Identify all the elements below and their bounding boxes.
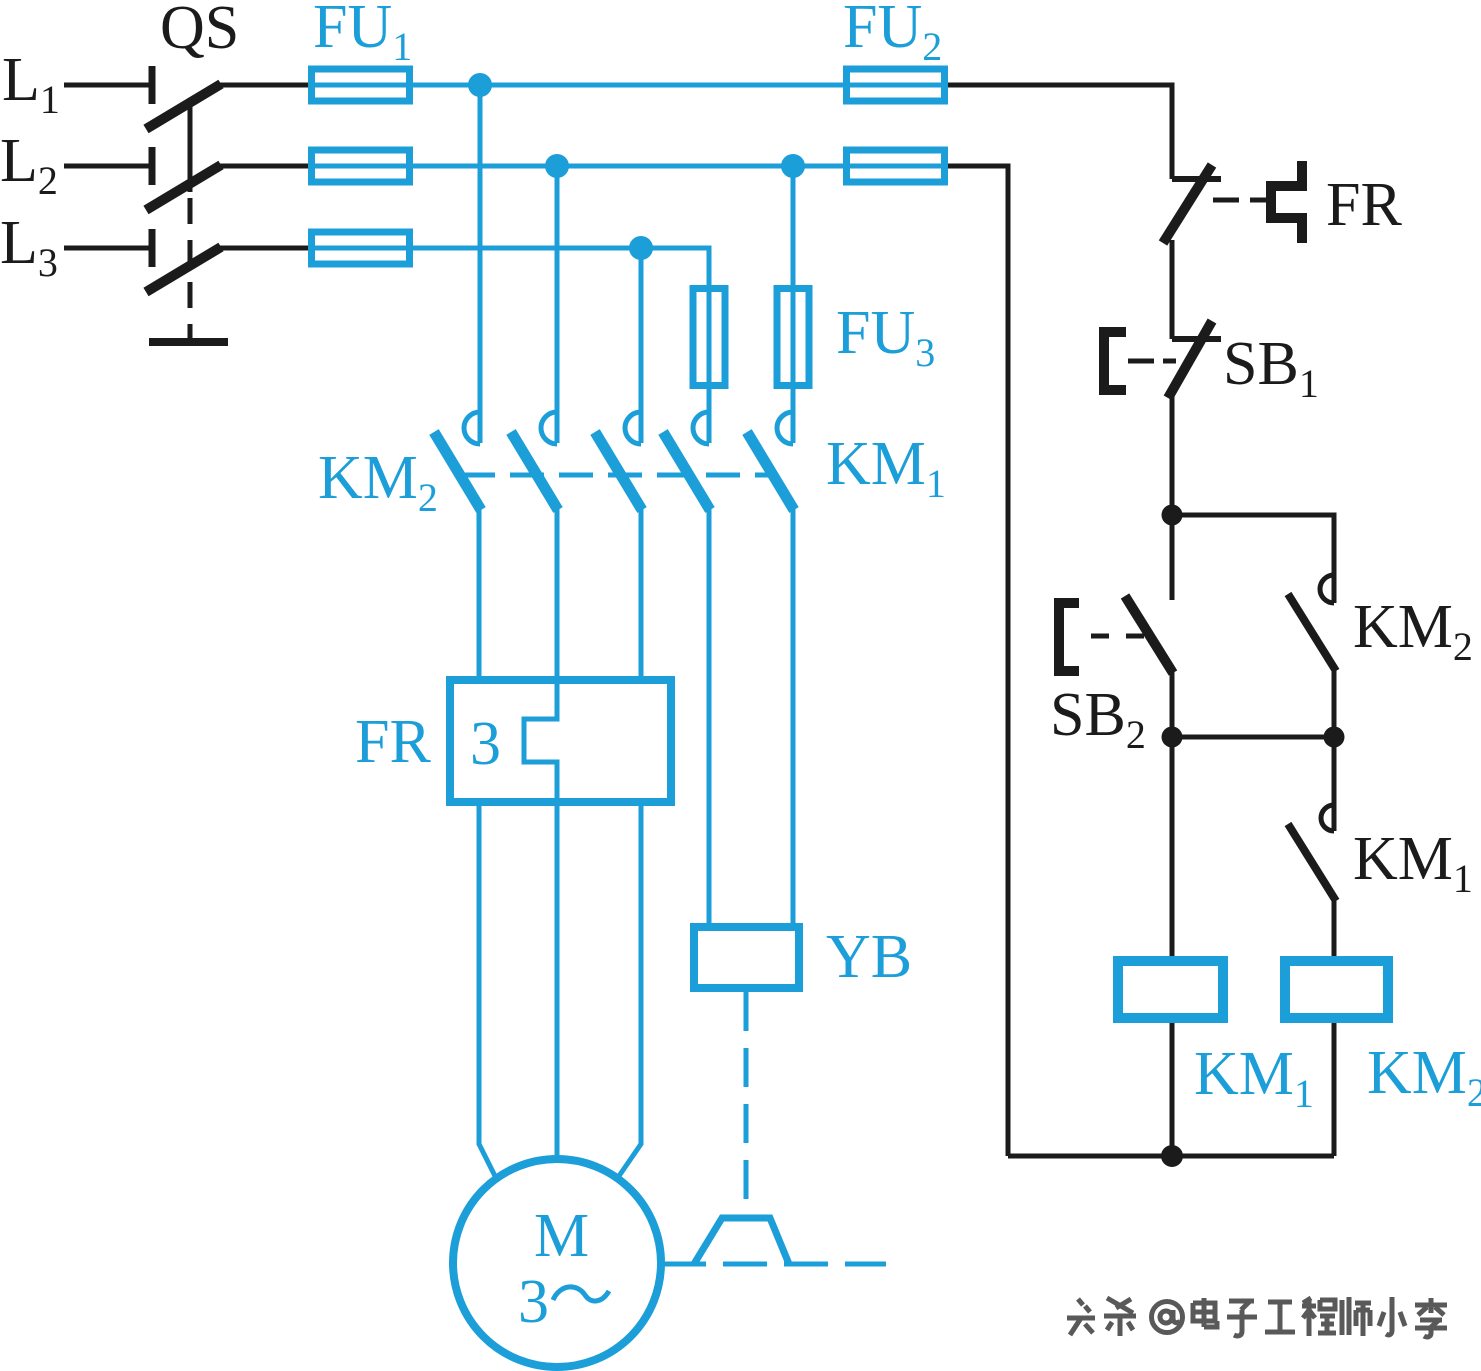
wire QS to FU1 phase2 (219, 164, 311, 169)
svg-text:QS: QS (160, 0, 239, 62)
wire contact1 to FR box (477, 505, 482, 680)
node A (1162, 505, 1183, 526)
FR contact actuator dashes (1213, 198, 1271, 203)
fuse FU3 right (777, 285, 809, 389)
contactor KM2 main contact 3 (595, 412, 642, 510)
label KM2 main (318, 444, 438, 520)
wire coil KM2 to bottom bus (1332, 1023, 1337, 1156)
label M (534, 1202, 589, 1270)
wire KM1 contact2 to YB (791, 505, 796, 927)
main contacts linkage dashed (461, 473, 773, 478)
label SB1 (1223, 330, 1319, 406)
wire KM1 aux to coil KM2 (1332, 897, 1337, 960)
wire to fuse FU3 right (791, 166, 796, 290)
switch QS pole 3 (146, 229, 221, 292)
label FR box (355, 708, 431, 776)
wire L3 to QS (64, 246, 152, 251)
fuse FU3 left (693, 285, 725, 389)
label coil KM1 (1194, 1040, 1314, 1116)
fuse FU1 phase2 (308, 150, 413, 182)
wire FU3 left to contact (707, 389, 712, 443)
fuse FU1 phase3 (308, 232, 413, 264)
relay FR NC contact (1163, 165, 1221, 243)
wire FR to motor U (479, 806, 495, 1176)
label YB (826, 923, 912, 991)
label FU2 (843, 0, 942, 69)
label KM1 main (826, 430, 946, 506)
svg-text:KM2: KM2 (1367, 1039, 1481, 1115)
wire L2 to QS (64, 164, 152, 169)
wire phase V drop (555, 166, 560, 443)
svg-text:YB: YB (826, 923, 912, 991)
wire contact3 to FR box (639, 505, 644, 680)
coil KM2 (1285, 961, 1388, 1018)
wire FR to motor V (555, 806, 560, 1161)
brake coil YB (694, 927, 799, 988)
svg-text:FR: FR (1326, 171, 1402, 239)
svg-text:M: M (534, 1202, 589, 1270)
QS handle bar (149, 338, 228, 346)
fuse FU1 phase1 (308, 69, 413, 101)
button SB2 NO (1059, 515, 1173, 673)
fuse FU2 upper (843, 69, 948, 101)
label L3 (0, 209, 58, 285)
wire FU3 right to contact (791, 389, 796, 443)
label KM1 aux (1353, 825, 1473, 901)
coil KM1 (1118, 961, 1223, 1018)
motor M circle (453, 1159, 661, 1367)
node C (1324, 727, 1345, 748)
label FR contact (1326, 171, 1402, 239)
node L1 junction (468, 73, 492, 97)
label FU3 (836, 299, 935, 375)
wire control phase top (948, 85, 1172, 179)
label FU1 (313, 0, 412, 69)
label coil KM2 (1367, 1039, 1481, 1115)
wire QS to FU1 phase1 (219, 83, 311, 88)
brake dashed baseline (662, 1262, 886, 1267)
contactor KM1 aux contact (1288, 805, 1336, 901)
svg-text:3: 3 (470, 710, 501, 778)
contactor KM1 main contact 1 (663, 412, 710, 510)
brake shoe trapezoid (694, 1218, 789, 1264)
YB actuator dashed (744, 992, 749, 1218)
wire KM1 contact1 to YB (707, 505, 712, 927)
wire phase W drop (639, 248, 644, 443)
contactor KM2 aux contact (1288, 575, 1336, 671)
svg-text:3: 3 (518, 1268, 549, 1336)
wire SB1 to node A (1170, 395, 1175, 515)
wire FR to SB1 (1170, 240, 1175, 339)
svg-text:FR: FR (355, 708, 431, 776)
label L2 (0, 127, 58, 203)
wire QS to FU1 phase3 (219, 246, 311, 251)
node L2 junction a (545, 154, 569, 178)
wire node B to coil KM1 (1170, 737, 1175, 960)
wire control neutral rail (948, 166, 1008, 1156)
button SB1 NC (1104, 321, 1221, 398)
switch QS pole 2 (146, 147, 221, 210)
FR heater symbol (1271, 161, 1302, 243)
wire FR to motor W (619, 806, 641, 1176)
node L2 junction b (781, 154, 805, 178)
label QS (160, 0, 239, 62)
label 3-phase (518, 1268, 609, 1336)
wire L3 bus (410, 248, 709, 290)
contactor KM2 main contact 2 (511, 412, 558, 510)
wire SB2 to node B (1170, 669, 1175, 737)
label L1 (2, 46, 60, 122)
switch QS pole 1 (146, 66, 221, 129)
contactor KM2 main contact 1 (434, 412, 481, 510)
QS linkage bar (188, 103, 193, 338)
wire KM2 aux to node C (1332, 667, 1337, 737)
wire phase U drop (478, 85, 483, 443)
FR heater element jog (524, 676, 557, 806)
watermark credit text (1067, 1297, 1447, 1337)
wire contact2 to FR box (555, 505, 560, 676)
node D (1161, 1145, 1183, 1167)
node L3 junction (629, 236, 653, 260)
wire node A to KM2 aux branch (1172, 515, 1334, 603)
wire L1 bus (410, 83, 846, 88)
wire coil KM1 to bottom bus (1170, 1023, 1175, 1156)
node B (1162, 727, 1183, 748)
wire L1 to QS (64, 83, 152, 88)
wire node B to node C (1172, 735, 1334, 740)
label KM2 aux (1353, 593, 1473, 669)
thermal relay FR heater box (450, 680, 671, 802)
label 3 inside FR box (470, 710, 501, 778)
label SB2 (1050, 681, 1146, 757)
fuse FU2 lower (843, 150, 948, 182)
wire L2 bus (410, 164, 846, 169)
wire node C to KM1 aux (1332, 737, 1337, 831)
contactor KM1 main contact 2 (747, 412, 794, 510)
wire bottom bus (1008, 1154, 1334, 1159)
